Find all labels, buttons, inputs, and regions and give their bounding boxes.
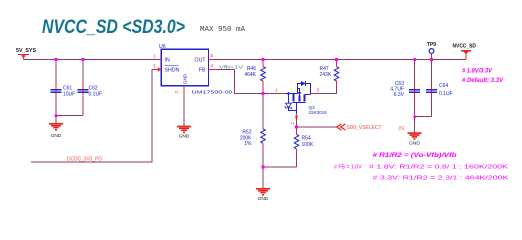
pin 2 stub — [183, 86, 185, 92]
capacitor C61 — [51, 60, 76, 116]
resistor R47 — [320, 60, 339, 94]
svg-text:# 1.8V: R1/R2 = 0.8/ 1 : 160K/: # 1.8V: R1/R2 = 0.8/ 1 : 160K/200K — [369, 164, 508, 170]
junction R46 on NVCC rail — [262, 58, 265, 61]
ground G2 — [177, 127, 191, 140]
junction TP9/C64 on NVCC rail — [430, 58, 433, 61]
svg-text:C64: C64 — [439, 83, 448, 89]
pin 3 stub — [157, 69, 162, 71]
resistor R52 — [240, 94, 265, 168]
pin 5 stub — [209, 59, 216, 61]
wire IC gnd down — [183, 92, 185, 126]
svg-text:# R1/R2 = (Vo-Vfb)/Vfb: # R1/R2 = (Vo-Vfb)/Vfb — [373, 152, 457, 159]
ground G4 — [408, 133, 422, 146]
svg-text:5: 5 — [211, 53, 214, 58]
svg-text:2: 2 — [174, 91, 179, 94]
wire gate down — [296, 119, 298, 127]
svg-text:SD0_VSELECT: SD0_VSELECT — [347, 125, 382, 131]
svg-text:6.3V: 6.3V — [394, 92, 405, 98]
svg-text:GND: GND — [51, 133, 62, 139]
svg-text:# Default: 3.3V: # Default: 3.3V — [462, 77, 504, 84]
resistor R54 — [294, 127, 314, 167]
svg-text:UM17500-00: UM17500-00 — [192, 90, 234, 95]
svg-text:1%: 1% — [244, 141, 252, 147]
ground G3 — [256, 189, 270, 202]
wire drain to R47 — [316, 86, 337, 94]
svg-text:2SK3018: 2SK3018 — [309, 110, 328, 115]
svg-text:FB: FB — [199, 68, 206, 74]
wire VSELECT — [297, 126, 337, 128]
svg-text:464K: 464K — [244, 72, 256, 78]
svg-text:GND: GND — [183, 73, 188, 84]
junction R47 on NVCC rail — [335, 58, 338, 61]
junction C61 on 5V rail — [55, 58, 58, 61]
svg-text:3: 3 — [317, 88, 320, 93]
wire OUT rail right — [216, 59, 467, 61]
svg-text:(5): (5) — [399, 125, 405, 131]
capacitor C63 — [390, 60, 420, 117]
svg-text:GND: GND — [179, 134, 190, 140]
wire 5V rail left — [24, 59, 158, 61]
svg-text:10UF: 10UF — [63, 91, 75, 97]
svg-text:Vfb=1V: Vfb=1V — [219, 64, 243, 69]
svg-text:5V_SYS: 5V_SYS — [16, 48, 36, 54]
pin 1 stub — [157, 59, 162, 61]
junction C63 on NVCC rail — [413, 58, 416, 61]
wire right caps join — [415, 116, 432, 118]
svg-text:2: 2 — [290, 122, 295, 125]
junction C63/C64 gnd join — [413, 115, 416, 118]
svg-text:# 3.3V: R1/R2 = 2.3/1 : 464K/2: # 3.3V: R1/R2 = 2.3/1 : 464K/200K — [373, 176, 509, 182]
transistor Q3 2SK3018 — [275, 81, 327, 115]
svg-text:NVCC_SD: NVCC_SD — [453, 44, 477, 50]
svg-text:# FB = 1.0V: # FB = 1.0V — [334, 164, 362, 170]
wire cap bottoms join — [56, 115, 83, 117]
svg-text:DCDC_3V3_PG: DCDC_3V3_PG — [67, 157, 102, 163]
wire SHDN net — [31, 70, 157, 163]
IC U6 regulator — [159, 44, 233, 95]
svg-text:IN: IN — [165, 57, 170, 63]
svg-text:MAX 950 mA: MAX 950 mA — [200, 26, 246, 34]
wire bottom join — [263, 166, 297, 168]
svg-text:GND: GND — [258, 196, 269, 202]
svg-text:1: 1 — [153, 54, 156, 59]
svg-text:R54: R54 — [302, 136, 311, 142]
svg-text:# 1.8V/3.3V: # 1.8V/3.3V — [462, 68, 493, 75]
svg-text:0.1UF: 0.1UF — [439, 91, 453, 97]
capacitor C62 — [78, 60, 103, 116]
junction node FB at R52 top — [262, 92, 265, 95]
svg-text:100K: 100K — [302, 142, 314, 148]
svg-text:GND: GND — [409, 140, 420, 146]
wire FB net — [216, 70, 282, 94]
svg-text:SHDN: SHDN — [165, 68, 180, 74]
power flag NVCC_SD — [453, 44, 477, 60]
svg-text:4: 4 — [211, 63, 214, 68]
pin 2 stub Q3 — [296, 115, 298, 118]
pin 4 stub — [209, 69, 216, 71]
svg-text:1: 1 — [275, 88, 278, 93]
resistor R46 — [244, 60, 265, 94]
svg-text:NVCC_SD <SD3.0>: NVCC_SD <SD3.0> — [42, 16, 185, 38]
svg-text:243K: 243K — [320, 72, 332, 78]
capacitor C64 — [426, 60, 453, 117]
ground G1 — [49, 124, 63, 139]
svg-text:OUT: OUT — [195, 57, 207, 63]
offpage connector — [337, 124, 346, 130]
svg-text:TP9: TP9 — [427, 42, 436, 48]
svg-text:3: 3 — [153, 64, 156, 69]
power flag 5V_SYS — [16, 48, 36, 60]
junction C61/C62 gnd join — [55, 114, 58, 117]
junction node SD0_VSELECT at Q3 gate — [295, 126, 298, 129]
test point TP9 — [427, 42, 436, 60]
pin 3 stub Q3 — [311, 93, 316, 95]
junction R52/R54 gnd join — [262, 166, 265, 169]
svg-text:0.1UF: 0.1UF — [89, 91, 103, 97]
junction C62 on 5V rail — [82, 58, 85, 61]
